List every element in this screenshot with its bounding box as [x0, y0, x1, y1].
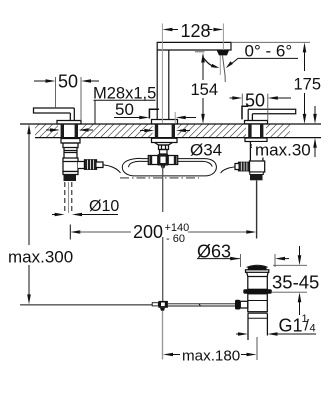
- left handle valve body: [63, 158, 78, 172]
- left handle base plate: [57, 121, 81, 125]
- spout column: [157, 51, 169, 120]
- dim max.30: [313, 114, 317, 124]
- countertop hatched band: [20, 124, 321, 138]
- svg-text:200: 200: [133, 222, 163, 242]
- spout mounting hook: [149, 109, 159, 118]
- dim max.300: [27, 124, 31, 134]
- svg-text:4: 4: [310, 323, 316, 335]
- swivel axis 0deg (gray): [219, 56, 221, 76]
- svg-text:max.180: max.180: [182, 348, 240, 365]
- dim max.180: [163, 353, 173, 357]
- dim 50 left: arrows: [34, 79, 99, 83]
- leader from 0-6 text: [231, 58, 239, 64]
- svg-text:154: 154: [191, 81, 219, 99]
- svg-text:max.300: max.300: [8, 248, 73, 267]
- svg-text:Ø10: Ø10: [89, 198, 119, 215]
- spout pull rod lower: [162, 237, 164, 303]
- spout base plate: [152, 120, 178, 125]
- dim 154: [195, 51, 205, 53]
- drain body lower: [248, 294, 267, 312]
- left handle lever: [34, 108, 75, 121]
- right handle valve body: [249, 161, 264, 172]
- right handle supply pipe: [256, 181, 258, 239]
- drain cap dome: [248, 266, 267, 270]
- middle T valve: [158, 154, 168, 168]
- middle hole arrows: [140, 129, 190, 133]
- spout horizontal arm: [157, 42, 231, 50]
- right handle hook: [242, 106, 248, 119]
- svg-text:128: 128: [181, 21, 211, 41]
- hose centerline dash-dot: [120, 177, 199, 179]
- right handle base plate: [245, 121, 268, 124]
- svg-text:Ø34: Ø34: [190, 141, 222, 160]
- drain body division: [248, 300, 267, 302]
- drain cap brim: [246, 270, 269, 273]
- pull rod lower gray: [162, 311, 164, 360]
- dim 35-45: [273, 264, 307, 266]
- left hole arrows: [46, 128, 93, 132]
- right handle outlet connector (left): [235, 162, 250, 171]
- middle hex nut: [159, 145, 169, 150]
- svg-text:- 60: - 60: [166, 233, 185, 245]
- spout pull rod upper: [162, 165, 164, 212]
- middle cone: [155, 143, 173, 146]
- left handle shank through counter: [61, 124, 78, 138]
- swivel arc left: [204, 58, 217, 67]
- drain clevis knob: [235, 300, 240, 310]
- svg-text:35-45: 35-45: [272, 272, 319, 293]
- middle neck: [160, 150, 168, 155]
- svg-text:max.30: max.30: [255, 141, 311, 160]
- dim 175: [231, 41, 310, 43]
- swivel axis 6deg: [223, 56, 226, 83]
- max300 reference line: [20, 304, 152, 306]
- left handle flange nut below counter: [61, 139, 80, 159]
- spout shank walls through counter: [155, 124, 175, 138]
- right handle lever: [248, 109, 296, 120]
- svg-text:175: 175: [294, 76, 322, 94]
- drain tailpipe: [248, 313, 267, 340]
- pull rod coupler: [152, 301, 168, 311]
- drain neck taper: [247, 272, 268, 276]
- right handle shank below: [250, 142, 263, 162]
- dim Ø10: [52, 214, 56, 216]
- svg-text:G1: G1: [279, 316, 303, 336]
- middle flange below counter: [152, 138, 178, 142]
- drain thread rings: [248, 312, 267, 319]
- svg-text:50: 50: [115, 100, 134, 119]
- left handle outlet connector: [78, 160, 103, 170]
- left handle dashed stud Ø10: [65, 182, 72, 214]
- right handle shank walls: [248, 124, 263, 138]
- svg-text:0° - 6°: 0° - 6°: [245, 42, 293, 61]
- label G1 1/4: [236, 333, 239, 335]
- horizontal actuator rod: [168, 304, 241, 306]
- dim 50 left: ticks: [56, 77, 82, 121]
- svg-text:50: 50: [58, 72, 78, 92]
- drain body upper: [248, 277, 267, 290]
- right handle flange below counter: [245, 138, 267, 142]
- hose from right handle connector: [221, 167, 239, 173]
- left handle bottom nut: [63, 172, 78, 182]
- hose from left handle connector: [103, 165, 120, 173]
- dim 50 right: ticks: [242, 94, 267, 121]
- drain centerline: [256, 337, 258, 360]
- hose stubs: [141, 159, 190, 162]
- dim 128: [162, 24, 223, 124]
- dim 200 +140 -60: [70, 230, 80, 234]
- right handle bottom nut: [250, 172, 263, 180]
- aerator: [217, 51, 229, 56]
- svg-text:50: 50: [245, 91, 265, 111]
- drain gasket: [243, 289, 271, 294]
- middle side cylinders: [148, 156, 177, 165]
- dim 50 right: arrows: [230, 96, 292, 100]
- hose loop capsule: [122, 158, 216, 176]
